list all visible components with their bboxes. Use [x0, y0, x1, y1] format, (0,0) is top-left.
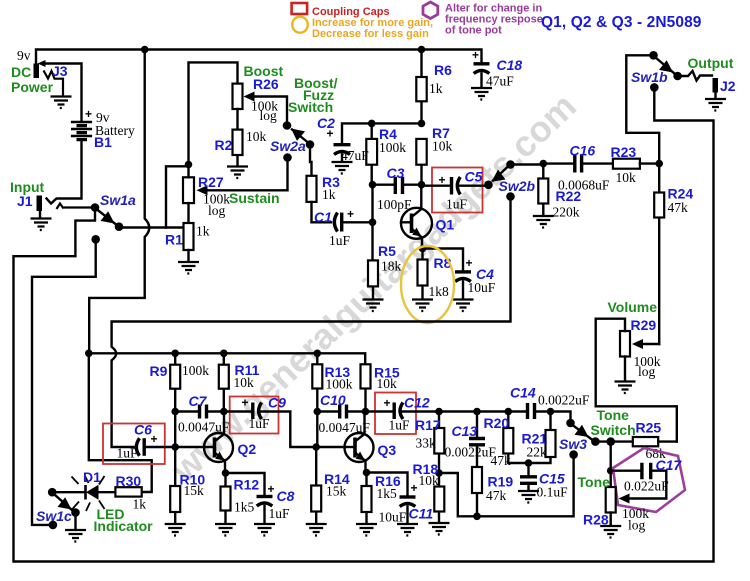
svg-text:+: + — [242, 396, 249, 410]
svg-text:+: + — [439, 173, 446, 187]
svg-text:R12: R12 — [234, 477, 260, 493]
svg-text:C14: C14 — [510, 385, 536, 401]
svg-text:0.0022uF: 0.0022uF — [538, 393, 590, 408]
svg-text:Sw2a: Sw2a — [270, 138, 306, 154]
capacitor C14 — [528, 403, 571, 423]
capacitor C10 — [314, 405, 370, 419]
capacitor C11 — [367, 473, 416, 524]
svg-text:C11: C11 — [409, 506, 434, 522]
capacitor C13 — [469, 408, 485, 445]
svg-text:R6: R6 — [434, 62, 452, 78]
svg-text:C6: C6 — [134, 422, 152, 438]
wire tone out down — [610, 442, 612, 487]
svg-text:47k: 47k — [491, 453, 512, 468]
svg-text:+: + — [384, 396, 391, 410]
svg-text:C10: C10 — [320, 392, 346, 408]
svg-text:C8: C8 — [277, 488, 295, 504]
svg-text:100k: 100k — [379, 140, 406, 155]
capacitor C6 — [136, 438, 175, 456]
svg-text:C5: C5 — [465, 169, 483, 185]
legend coupling caps box — [292, 3, 308, 14]
svg-text:10k: 10k — [432, 139, 453, 154]
wire junction up to Sw1b top — [626, 55, 659, 163]
svg-text:C17: C17 — [656, 457, 683, 473]
resistor R17 — [434, 412, 444, 474]
svg-text:15k: 15k — [326, 484, 347, 499]
svg-text:Decrease for less gain: Decrease for less gain — [312, 28, 429, 40]
node Q2 base junction — [171, 443, 179, 451]
svg-text:R27: R27 — [198, 174, 224, 190]
node rail-bypassline junction — [141, 46, 149, 54]
svg-text:R9: R9 — [150, 363, 168, 379]
ground R8 — [412, 300, 433, 312]
pot R28 tone — [606, 487, 616, 526]
svg-text:C1: C1 — [314, 209, 332, 225]
svg-text:+: + — [472, 48, 479, 62]
svg-text:of tone pot: of tone pot — [445, 25, 502, 37]
resistor R18 — [434, 473, 444, 523]
switch Sw3 — [566, 419, 611, 459]
wire bus to LED feed — [89, 353, 152, 492]
red box C12 — [375, 393, 416, 435]
ground R2 — [227, 167, 248, 179]
svg-text:log: log — [628, 518, 646, 533]
svg-text:+: + — [347, 207, 354, 221]
resistor R22 — [538, 164, 548, 216]
ground Sw1c — [65, 530, 86, 542]
resistor R14 — [311, 447, 321, 524]
wire tone stack top — [439, 410, 526, 412]
ground J2 — [705, 99, 726, 111]
pot R27 sustain — [183, 158, 288, 224]
svg-text:1k: 1k — [133, 497, 147, 512]
red box C5 — [432, 168, 483, 213]
svg-text:D1: D1 — [83, 469, 101, 485]
svg-text:Output: Output — [688, 55, 734, 71]
wire R17 junction to Sw3 bottom — [439, 455, 574, 517]
wire base to Q2 — [175, 446, 213, 448]
ground R5 — [363, 300, 384, 312]
switch Sw2a — [283, 121, 315, 162]
svg-text:Switch: Switch — [288, 99, 333, 115]
wire V+ feed down left with hop over Sw1a wire — [89, 50, 149, 354]
resistor R2 — [233, 109, 243, 166]
ground R12 — [215, 524, 236, 536]
ground C11 — [397, 524, 418, 536]
wire Sw1a wiper to R1 — [119, 226, 184, 228]
svg-text:Q1: Q1 — [436, 217, 455, 233]
svg-text:10uF: 10uF — [379, 510, 407, 525]
transistor Q2 — [204, 412, 233, 474]
node R23-R24 junction — [640, 160, 663, 168]
resistor R12 — [221, 473, 231, 524]
capacitor C17 — [611, 463, 667, 504]
svg-text:Sw2b: Sw2b — [499, 178, 536, 194]
svg-text:0.0022uF: 0.0022uF — [445, 445, 497, 460]
switch Sw1b — [649, 51, 682, 92]
capacitor C2 — [334, 145, 351, 161]
svg-text:+: + — [411, 481, 418, 495]
node rail2-R4 — [368, 120, 376, 128]
svg-text:log: log — [260, 108, 278, 123]
svg-text:0.022uF: 0.022uF — [624, 479, 669, 494]
svg-text:0.0068uF: 0.0068uF — [558, 178, 610, 193]
ground J1 — [31, 219, 52, 231]
svg-text:47uF: 47uF — [486, 74, 514, 89]
node rail2-R6R7 — [418, 120, 426, 128]
red box C9 — [230, 397, 279, 434]
svg-text:C16: C16 — [570, 143, 596, 159]
svg-text:1uF: 1uF — [329, 233, 351, 248]
svg-text:1uF: 1uF — [249, 416, 271, 431]
ground R10 — [165, 524, 186, 536]
svg-text:+: + — [466, 256, 473, 270]
battery B1 — [47, 122, 93, 204]
ground C2 — [332, 162, 353, 174]
svg-text:1k5: 1k5 — [234, 500, 255, 515]
resistor R13 — [312, 353, 322, 411]
svg-text:Q1, Q2 & Q3 - 2N5089: Q1, Q2 & Q3 - 2N5089 — [541, 14, 702, 31]
node R19 bottom — [473, 513, 481, 521]
svg-text:Sw3: Sw3 — [559, 436, 587, 452]
ground R28 — [600, 526, 621, 538]
svg-text:1k: 1k — [322, 187, 336, 202]
svg-text:+: + — [151, 432, 158, 446]
switch Sw1a — [91, 203, 124, 243]
ground R29 — [615, 382, 636, 394]
svg-text:R20: R20 — [484, 415, 510, 431]
dc jack J3 — [34, 60, 82, 121]
node C16 junction — [540, 160, 548, 168]
transistor Q3 — [345, 412, 374, 473]
svg-text:log: log — [638, 364, 656, 379]
boost section frame wire — [189, 62, 238, 164]
resistor R15 — [361, 364, 371, 411]
resistor R23 — [613, 159, 640, 169]
red box C6 — [103, 424, 165, 465]
svg-text:C12: C12 — [404, 395, 430, 411]
svg-text:1uF: 1uF — [269, 506, 291, 521]
resistor R30 — [115, 487, 141, 496]
capacitor C7 — [171, 405, 227, 419]
switch Sw2b — [484, 160, 543, 201]
ground C15 — [518, 491, 539, 503]
svg-text:1uF: 1uF — [117, 446, 139, 461]
svg-text:10k: 10k — [377, 376, 398, 391]
svg-text:Switch: Switch — [591, 422, 636, 438]
svg-text:1k8: 1k8 — [429, 284, 450, 299]
resistor R20 — [503, 408, 528, 463]
wire rail2 Q1 stage — [342, 123, 422, 142]
ground R1 — [178, 262, 199, 274]
resistor R24 — [654, 164, 664, 344]
svg-text:Power: Power — [11, 79, 54, 95]
yellow ellipse around R8 — [401, 246, 454, 323]
svg-text:22k: 22k — [527, 445, 548, 460]
svg-text:18k: 18k — [381, 259, 402, 274]
capacitor C15 — [520, 459, 537, 490]
svg-text:Q2: Q2 — [238, 441, 257, 457]
node R17 bottom junction — [435, 469, 443, 477]
resistor R1 — [184, 223, 194, 262]
svg-text:100k: 100k — [326, 377, 353, 392]
svg-text:0.1uF: 0.1uF — [537, 485, 569, 500]
node C12 out junction — [435, 408, 443, 416]
svg-text:log: log — [208, 203, 226, 218]
svg-text:C18: C18 — [497, 57, 523, 73]
capacitor C5 — [422, 177, 487, 195]
resistor R8 — [418, 249, 428, 300]
svg-text:R2: R2 — [215, 137, 233, 153]
wire Sw2a to R3 — [310, 145, 312, 176]
svg-text:10k: 10k — [246, 129, 267, 144]
svg-text:R30: R30 — [116, 473, 142, 489]
svg-text:Sw1b: Sw1b — [631, 69, 668, 85]
capacitor C1 — [334, 213, 372, 232]
svg-text:R23: R23 — [611, 144, 637, 160]
svg-text:J2: J2 — [720, 78, 736, 94]
svg-text:Q3: Q3 — [378, 442, 397, 458]
capacitor C8 — [226, 473, 273, 524]
wire Sw1a to R27 top junction — [166, 166, 189, 227]
resistor R10 — [170, 486, 180, 524]
resistor R3 — [307, 176, 332, 223]
node Q3 emitter — [363, 469, 371, 477]
svg-text:1uF: 1uF — [446, 197, 468, 212]
wire C10 junction down to Q3 base — [316, 412, 318, 448]
svg-text:R29: R29 — [631, 317, 657, 333]
svg-text:100k: 100k — [182, 363, 209, 378]
purple hexagon around C17 — [613, 448, 685, 512]
svg-text:Tone: Tone — [597, 407, 630, 423]
transistor Q1 — [369, 185, 432, 249]
resistor R25 — [611, 437, 677, 446]
resistor R16 — [362, 473, 372, 524]
svg-text:J3: J3 — [52, 63, 68, 79]
resistor R11 — [219, 353, 229, 411]
resistor R6 — [416, 50, 426, 124]
V+ bus lower stages — [85, 350, 365, 365]
svg-text:10k: 10k — [234, 375, 255, 390]
capacitor C3 — [369, 177, 426, 194]
node Q3 base junction — [312, 443, 320, 451]
svg-text:1k5: 1k5 — [377, 486, 398, 501]
svg-text:+: + — [85, 107, 92, 121]
svg-text:1uF: 1uF — [389, 418, 411, 433]
svg-text:1k: 1k — [196, 224, 210, 239]
svg-text:C9: C9 — [268, 395, 286, 411]
resistor R21 — [529, 408, 556, 463]
node rail-R6 junction — [418, 46, 426, 54]
capacitor C9 — [226, 403, 345, 448]
node R28 top junction — [607, 467, 615, 475]
wire 9V rail — [36, 50, 482, 66]
capacitor C4 — [423, 249, 472, 300]
resistor R9 — [170, 353, 180, 411]
pot R29 volume — [596, 319, 677, 442]
node tone out junction — [606, 437, 615, 446]
svg-text:33k: 33k — [416, 436, 437, 451]
resistor R19 — [472, 446, 482, 516]
resistor R4 — [366, 123, 377, 184]
legend tone hexagon — [423, 2, 438, 19]
capacitor C12 — [368, 403, 440, 420]
svg-text:J1: J1 — [17, 193, 33, 209]
pot R26 — [233, 84, 288, 122]
capacitor C18 — [474, 64, 490, 88]
ground R14 — [306, 524, 327, 536]
svg-text:9v: 9v — [17, 48, 31, 63]
output jack J2 — [678, 71, 718, 99]
switch Sw1c — [48, 488, 80, 530]
svg-text:C13: C13 — [452, 423, 478, 439]
wire C7 junction down to base — [174, 412, 176, 487]
svg-text:DC: DC — [11, 64, 31, 80]
capacitor C16 — [545, 155, 613, 173]
resistor R5 — [368, 222, 378, 299]
svg-text:C3: C3 — [387, 165, 405, 181]
ground R22 — [533, 216, 554, 228]
svg-text:15k: 15k — [184, 483, 205, 498]
ground C4 — [453, 300, 474, 312]
legend gain circle — [292, 17, 308, 33]
input jack J1 — [37, 196, 96, 219]
svg-text:Sustain: Sustain — [229, 190, 280, 206]
svg-text:C7: C7 — [189, 393, 208, 409]
svg-text:+: + — [268, 482, 275, 496]
svg-text:Indicator: Indicator — [94, 518, 154, 534]
svg-text:R1: R1 — [165, 232, 183, 248]
svg-text:47uF: 47uF — [341, 148, 369, 163]
svg-text:B1: B1 — [94, 134, 112, 150]
svg-text:47k: 47k — [486, 488, 507, 503]
svg-text:220k: 220k — [553, 205, 580, 220]
svg-text:+: + — [327, 127, 334, 141]
ground C18 — [471, 88, 492, 100]
svg-text:R26: R26 — [253, 76, 279, 92]
svg-text:Tone: Tone — [578, 474, 611, 490]
svg-text:1k: 1k — [429, 81, 443, 96]
resistor R7 — [416, 139, 426, 185]
wire Sw2b lower throw to fuzz input with hop over V+ bus — [112, 197, 511, 448]
wire Sw1a lower throw to Sw1c — [32, 239, 96, 525]
node Q1 emitter — [419, 245, 427, 253]
ground J3 — [51, 97, 72, 109]
node Q2 emitter — [222, 469, 230, 477]
svg-text:R25: R25 — [636, 420, 662, 436]
svg-text:10k: 10k — [419, 473, 440, 488]
svg-text:R17: R17 — [415, 417, 441, 433]
ground R18 — [429, 523, 450, 535]
svg-text:R5: R5 — [378, 243, 396, 259]
wire bypass: input to Sw1b via bottom border — [14, 87, 714, 561]
svg-text:Sw1a: Sw1a — [100, 192, 136, 208]
svg-text:10k: 10k — [616, 170, 637, 185]
ground C8 — [254, 524, 275, 536]
svg-text:10uF: 10uF — [468, 280, 496, 295]
led D1 — [52, 476, 115, 511]
svg-text:47k: 47k — [668, 200, 689, 215]
ground R16 — [356, 524, 377, 536]
svg-text:Volume: Volume — [608, 299, 658, 315]
svg-text:Sw1c: Sw1c — [36, 508, 72, 524]
